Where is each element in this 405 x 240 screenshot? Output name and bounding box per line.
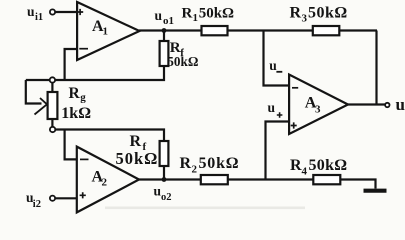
svg-text:R: R bbox=[290, 5, 302, 22]
svg-text:u: u bbox=[268, 100, 276, 115]
svg-text:R: R bbox=[182, 5, 193, 21]
svg-text:g: g bbox=[80, 92, 86, 104]
svg-text:50kΩ: 50kΩ bbox=[308, 5, 348, 22]
svg-text:50kΩ: 50kΩ bbox=[116, 149, 159, 168]
svg-text:u: u bbox=[27, 4, 35, 19]
svg-text:u: u bbox=[155, 8, 163, 23]
svg-text:3: 3 bbox=[302, 13, 308, 25]
svg-text:1kΩ: 1kΩ bbox=[61, 105, 91, 122]
svg-text:i2: i2 bbox=[33, 199, 41, 210]
svg-text:R: R bbox=[180, 155, 192, 172]
svg-text:o1: o1 bbox=[163, 15, 174, 27]
svg-text:50kΩ: 50kΩ bbox=[167, 54, 198, 69]
svg-text:50kΩ: 50kΩ bbox=[309, 157, 348, 174]
svg-text:50kΩ: 50kΩ bbox=[199, 155, 240, 172]
svg-text:3: 3 bbox=[315, 104, 321, 116]
svg-text:u: u bbox=[269, 58, 277, 73]
svg-text:2: 2 bbox=[102, 177, 108, 189]
svg-text:1: 1 bbox=[103, 26, 109, 38]
svg-text:i1: i1 bbox=[35, 12, 43, 23]
svg-text:o2: o2 bbox=[161, 192, 172, 203]
svg-text:R: R bbox=[69, 85, 81, 102]
svg-text:R: R bbox=[290, 157, 302, 174]
svg-text:u: u bbox=[396, 95, 405, 114]
svg-text:R: R bbox=[130, 133, 142, 150]
svg-text:50kΩ: 50kΩ bbox=[199, 5, 234, 21]
svg-text:1: 1 bbox=[193, 12, 199, 24]
svg-text:4: 4 bbox=[302, 166, 308, 178]
svg-text:2: 2 bbox=[192, 164, 198, 176]
